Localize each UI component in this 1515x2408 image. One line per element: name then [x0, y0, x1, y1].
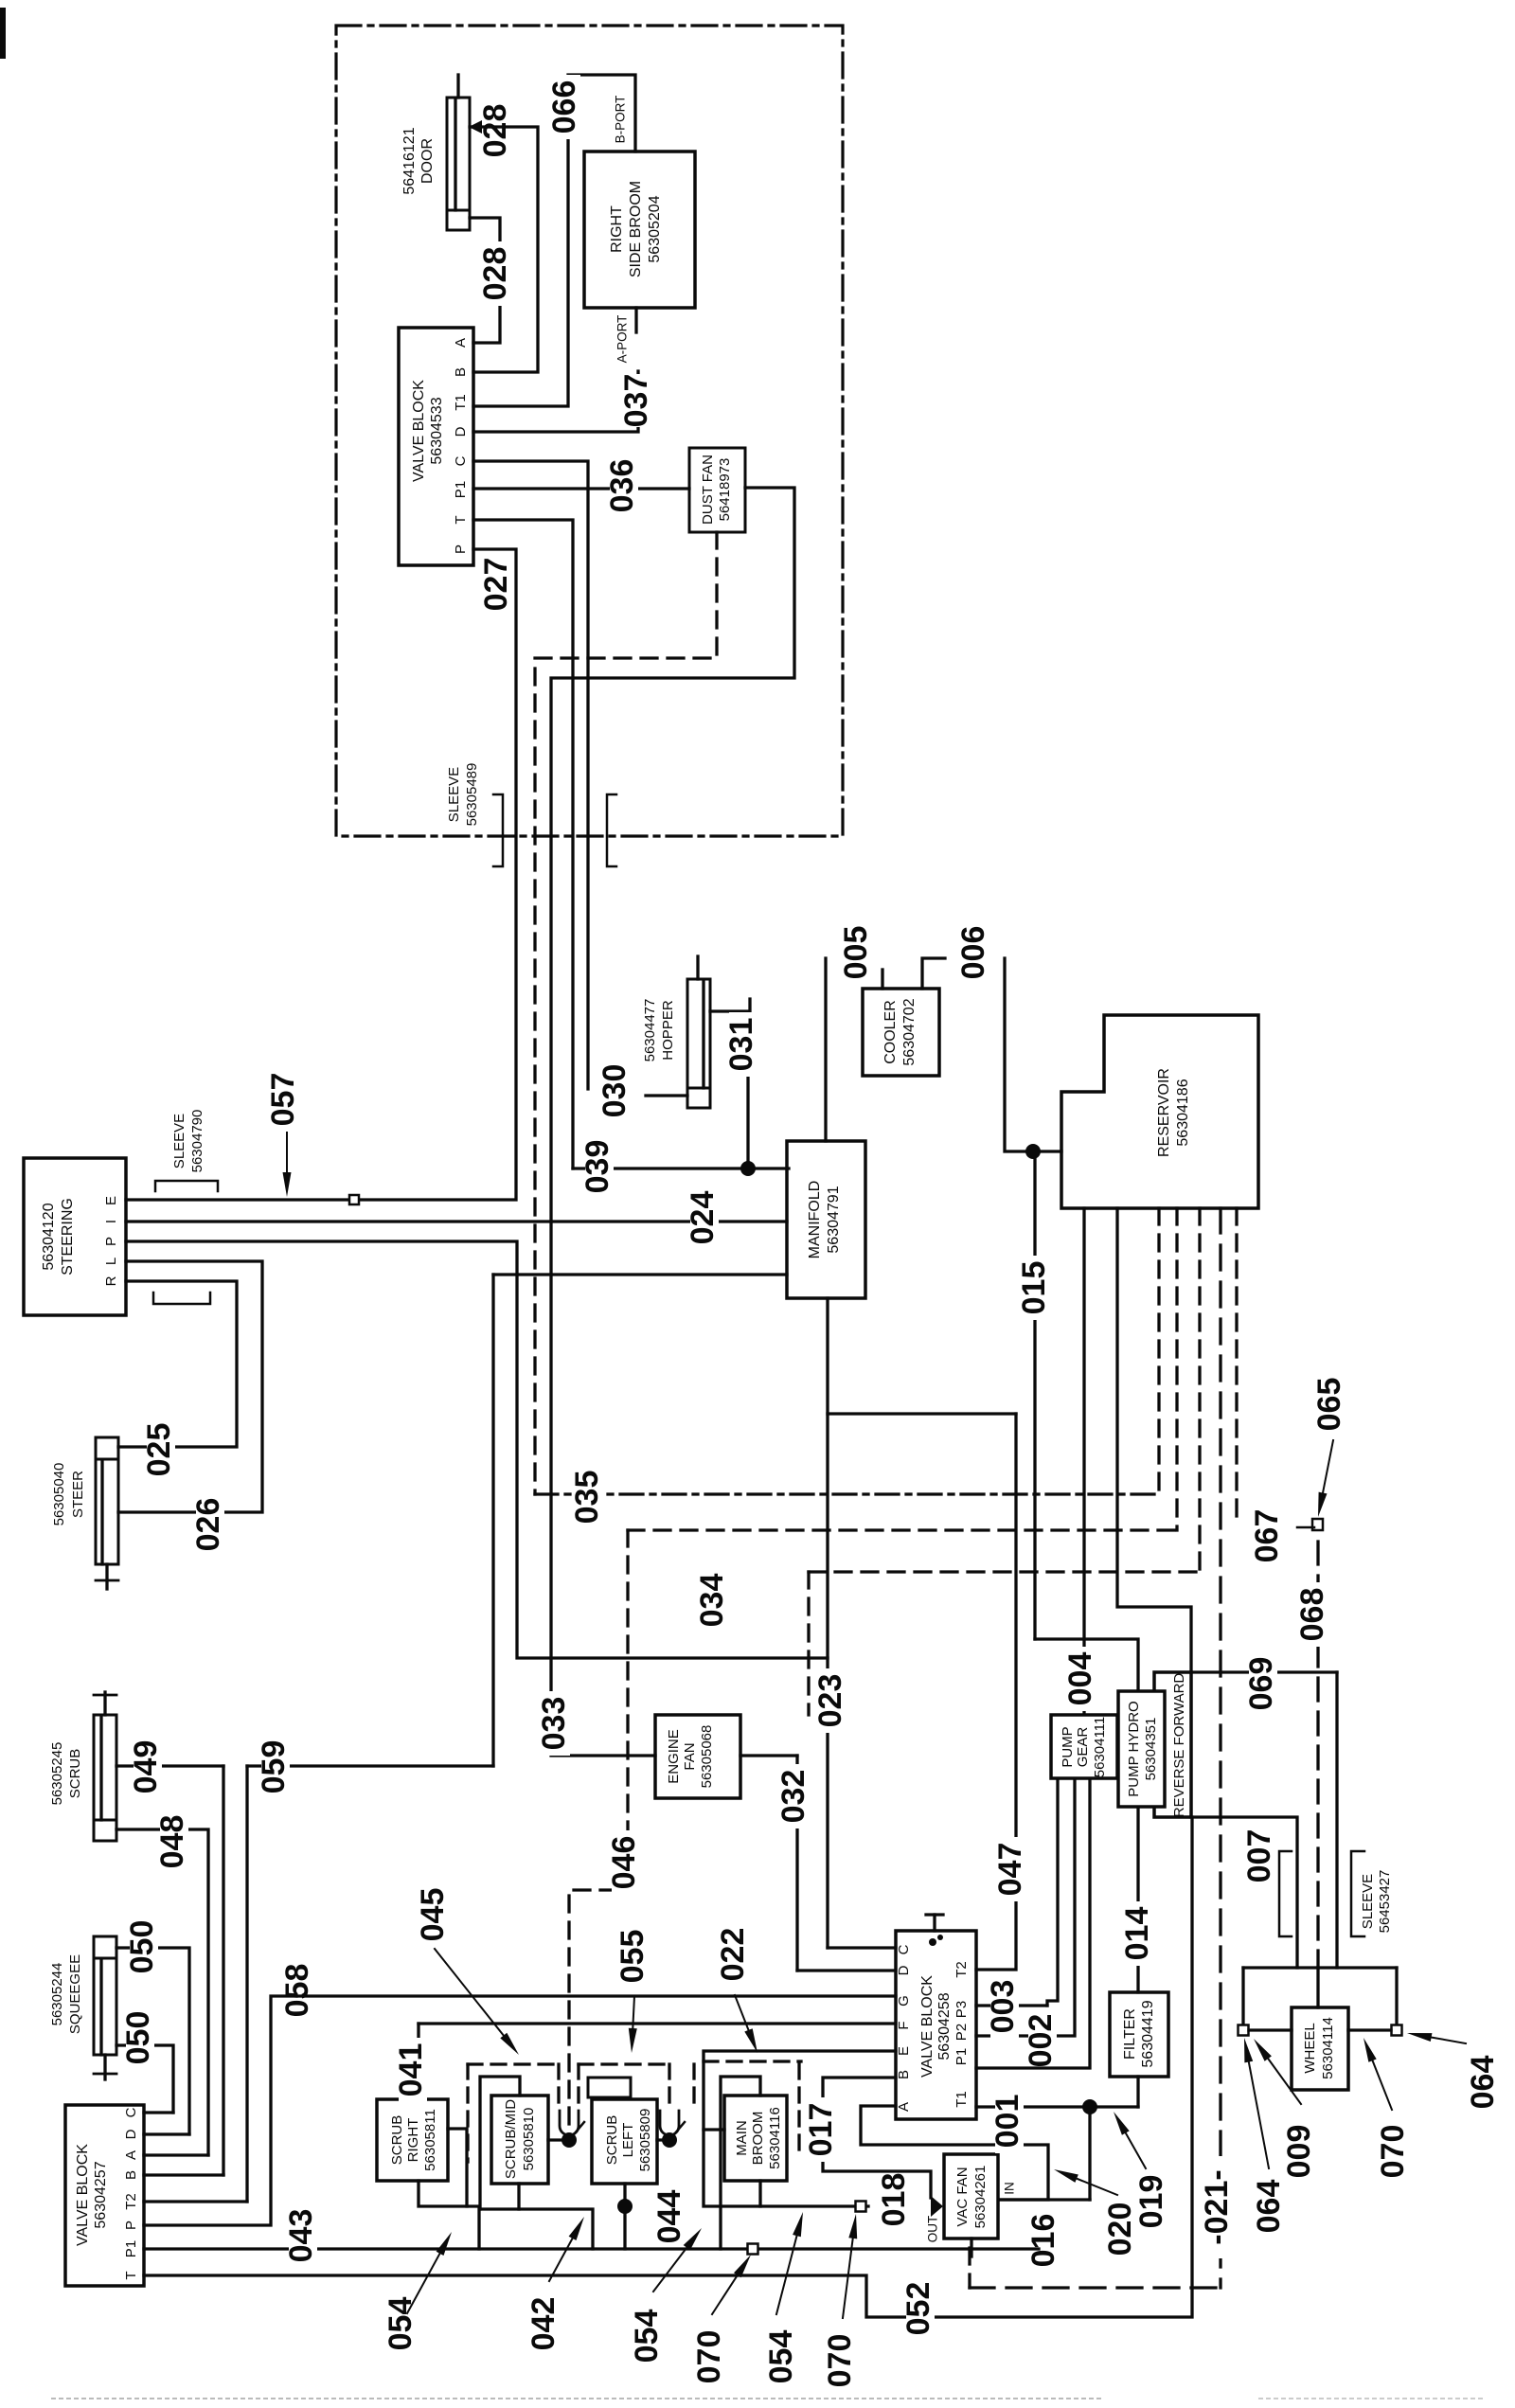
svg-text:56305810: 56305810 — [521, 2108, 537, 2171]
dashed box C top edge — [704, 2060, 801, 2062]
junction node 044 — [617, 2199, 633, 2214]
svg-text:56304186: 56304186 — [1175, 1079, 1191, 1146]
svg-text:055: 055 — [615, 1930, 651, 1984]
steering unit 56304120 — [24, 1158, 126, 1315]
svg-text:DOOR: DOOR — [419, 138, 436, 184]
connector square 064 right — [1392, 2025, 1402, 2036]
label 021 — [1204, 2156, 1233, 2258]
wire 050 squeegee top to valve3 D — [116, 1948, 189, 2134]
svg-text:OUT: OUT — [926, 2216, 940, 2243]
valve block U2 56304258 — [896, 1931, 976, 2119]
label 050 lower — [126, 2006, 154, 2070]
wire 018 valve2 A loop to vac fan IN — [861, 2106, 1048, 2200]
wire 059 vertical — [491, 1275, 494, 1766]
wire valve2 E to broom bottom rail — [704, 2051, 896, 2206]
arrow 054 c — [776, 2236, 796, 2314]
wire 042 scrub mid bottom — [480, 2209, 593, 2249]
svg-text:006: 006 — [955, 926, 991, 980]
connector 065 body — [1312, 1519, 1323, 1530]
wire 059 vertical to valve3 T2 — [245, 1766, 248, 2202]
svg-text:042: 042 — [526, 2297, 561, 2351]
svg-text:RIGHT: RIGHT — [405, 2118, 421, 2163]
arrow 070 b — [843, 2239, 853, 2318]
label 032 — [781, 1764, 810, 1828]
svg-text:56305489: 56305489 — [464, 763, 480, 827]
svg-text:G: G — [896, 1995, 912, 2007]
wire 026 steering L to steer cylinder — [118, 1261, 262, 1512]
svg-text:T2: T2 — [954, 1961, 970, 1978]
valve2 plugged port cap — [926, 1913, 943, 1916]
svg-text:C: C — [123, 2107, 139, 2117]
svg-text:56305068: 56305068 — [699, 1725, 715, 1789]
arrowhead at door cylinder port — [469, 120, 482, 134]
dashed reservoir drain 4 (021) — [1219, 1208, 1221, 2288]
svg-text:031: 031 — [723, 1018, 759, 1072]
sleeve bracket right 56453427 — [1351, 1851, 1364, 1936]
svg-text:56305809: 56305809 — [637, 2109, 653, 2172]
svg-text:050: 050 — [120, 2011, 156, 2065]
label 050 upper — [130, 1915, 158, 1979]
svg-text:041: 041 — [393, 2043, 429, 2097]
svg-text:P: P — [103, 1237, 119, 1246]
svg-text:SQUEEGEE: SQUEEGEE — [67, 1954, 83, 2034]
svg-text:046: 046 — [606, 1836, 642, 1890]
dashed wire 068 down to wheel bar — [1316, 1542, 1319, 1968]
svg-text:037: 037 — [618, 374, 654, 428]
cylinder DOOR 56416121 body — [447, 98, 470, 210]
wire 044 scrub left bottom — [623, 2184, 626, 2249]
steer cylinder body — [96, 1459, 118, 1564]
svg-text:D: D — [123, 2129, 139, 2139]
label 025 — [147, 1418, 175, 1482]
svg-text:VAC FAN: VAC FAN — [954, 2167, 971, 2226]
arrow 054 a — [407, 2254, 440, 2313]
dashed box C right edge — [797, 2064, 800, 2151]
svg-text:56305040: 56305040 — [51, 1463, 67, 1526]
svg-text:026: 026 — [190, 1498, 226, 1552]
wire 037 valve1 D to broom A-PORT — [473, 371, 638, 432]
wire 047 vertical to valve2 T2 — [976, 1414, 1016, 1970]
dashed wire 021 stub up — [968, 2248, 971, 2288]
svg-text:PUMP: PUMP — [1060, 1726, 1076, 1767]
svg-text:D: D — [896, 1965, 912, 1975]
svg-text:028: 028 — [477, 104, 513, 158]
svg-text:SLEEVE: SLEEVE — [446, 767, 462, 822]
svg-text:070: 070 — [691, 2330, 727, 2384]
label 066 — [552, 75, 580, 139]
arrow 064 right — [1432, 2038, 1466, 2043]
svg-text:56304533: 56304533 — [429, 397, 445, 464]
svg-text:005: 005 — [838, 926, 874, 980]
svg-text:047: 047 — [992, 1843, 1028, 1897]
svg-text:027: 027 — [478, 558, 514, 612]
wire valve3 T2 stub — [144, 2200, 247, 2203]
svg-text:SCRUB: SCRUB — [604, 2115, 620, 2166]
wire 050 squeegee bottom to valve3 C — [116, 2045, 173, 2113]
svg-text:R: R — [103, 1275, 119, 1286]
wire 054 scrub right bottom — [419, 2181, 479, 2249]
svg-text:56305244: 56305244 — [49, 1963, 65, 2026]
svg-text:GEAR: GEAR — [1075, 1727, 1091, 1768]
svg-text:LEFT: LEFT — [620, 2123, 636, 2158]
dust fan motor 56418973 — [689, 448, 745, 532]
wire 019 valve2 T1 to filter — [976, 2105, 1138, 2108]
wire 033 dust fan right loop down to engine fan — [551, 488, 794, 1756]
receptacle cup at scrub left — [660, 2111, 679, 2135]
svg-text:067: 067 — [1249, 1509, 1285, 1563]
wire 005 cooler stub — [881, 970, 883, 989]
svg-text:MAIN: MAIN — [734, 2120, 750, 2156]
wire 049 scrub top port — [116, 1764, 223, 1767]
wire valve3 B stub — [144, 2173, 223, 2176]
wire 043 valve3 P1 long line — [144, 2247, 1039, 2250]
arrow 070 a — [712, 2275, 738, 2314]
svg-text:P: P — [123, 2221, 139, 2230]
svg-text:ENGINE: ENGINE — [666, 1729, 682, 1784]
scrub right solenoid 56305811 — [377, 2099, 448, 2181]
connector square 070 on broom rail — [856, 2202, 866, 2212]
wire 006 cooler stub — [922, 958, 945, 989]
steer cylinder rod — [105, 1564, 108, 1589]
svg-text:-021-: -021- — [1199, 2169, 1235, 2244]
svg-text:SIDE BROOM: SIDE BROOM — [628, 181, 644, 277]
svg-text:024: 024 — [685, 1191, 721, 1245]
label 033 — [542, 1691, 570, 1756]
wire 039 valve1 T down — [473, 520, 573, 1168]
svg-text:56305245: 56305245 — [49, 1742, 65, 1806]
door cylinder cap — [447, 210, 470, 230]
svg-text:COOLER: COOLER — [882, 1000, 899, 1064]
svg-text:MANIFOLD: MANIFOLD — [807, 1181, 823, 1259]
valve block U3 56304257 — [65, 2105, 144, 2286]
wire 032 engine fan right — [740, 1754, 797, 1757]
arrow 009 — [1268, 2059, 1301, 2104]
wire 004 reservoir to pump gear top — [1082, 1208, 1085, 1715]
svg-text:036: 036 — [604, 459, 640, 513]
svg-text:A: A — [123, 2150, 139, 2160]
connector square 070 on 043 line — [748, 2244, 758, 2255]
valve2 plugged port stub — [933, 1915, 936, 1931]
wire 003 valve2 P3 stub — [976, 2004, 1047, 2007]
svg-text:IN: IN — [1003, 2182, 1017, 2195]
svg-text:T1: T1 — [954, 2091, 970, 2108]
svg-text:T2: T2 — [123, 2193, 139, 2210]
sleeve bracket right 56305489 — [607, 794, 616, 866]
svg-text:E: E — [103, 1196, 119, 1205]
wire 058 valve3 P to valve2 G — [144, 1996, 896, 2225]
wire 016 vac fan OUT stub — [970, 2239, 972, 2256]
svg-text:56453427: 56453427 — [1377, 1870, 1393, 1934]
valve2 symbol dot a — [929, 1938, 936, 1946]
node tick scrub left — [669, 2122, 685, 2140]
svg-text:STEER: STEER — [70, 1471, 86, 1518]
label 068 — [1300, 1582, 1328, 1647]
svg-text:VALVE BLOCK: VALVE BLOCK — [75, 2144, 91, 2246]
wire 066 valve1 T1 to broom B-PORT — [473, 75, 635, 406]
svg-text:064: 064 — [1251, 2180, 1287, 2234]
svg-text:56304791: 56304791 — [826, 1186, 842, 1253]
svg-text:F: F — [896, 2021, 912, 2029]
wire 023 into valve2 C — [828, 1946, 896, 1949]
svg-text:016: 016 — [1025, 2214, 1061, 2268]
label 048 — [160, 1810, 188, 1874]
svg-text:043: 043 — [283, 2209, 319, 2263]
svg-text:058: 058 — [279, 1964, 315, 2018]
arrow 020 — [1077, 2179, 1117, 2195]
wire 031 hopper cylinder port stub — [710, 999, 750, 1011]
label 037 — [624, 374, 652, 427]
steer rod crossbar — [96, 1579, 118, 1582]
squeegee rod crossbar — [94, 2073, 116, 2076]
arrow 045 — [435, 1949, 504, 2036]
cooler 56304702 — [863, 989, 939, 1076]
wire 032 vertical — [795, 1756, 798, 1971]
svg-text:FILTER: FILTER — [1122, 2008, 1138, 2060]
pump gear 56304111 — [1051, 1715, 1117, 1778]
wire wheel bar right drop — [1395, 1968, 1398, 2025]
dashed box A left edge — [466, 2064, 469, 2162]
node tick scrub mid — [569, 2122, 584, 2140]
wire 001 valve2 P1 to pump gear — [976, 1779, 1090, 2068]
svg-text:C: C — [453, 455, 469, 466]
wire 041 scrub right top stub — [417, 2024, 419, 2099]
label 001 — [995, 2089, 1024, 2153]
dashed box B left edge — [577, 2064, 579, 2112]
label 015 — [1022, 1256, 1050, 1320]
wire 039 horizontal to manifold — [573, 1167, 789, 1169]
svg-text:050: 050 — [124, 1920, 160, 1974]
label 052 — [906, 2276, 935, 2341]
svg-text:FAN: FAN — [682, 1742, 698, 1770]
wire 006 down to reservoir — [1005, 958, 1061, 1151]
cylinder STEER 56305040 cap — [96, 1437, 118, 1459]
scrub rod crossbar — [94, 1694, 116, 1697]
wire 005 manifold top stub — [824, 958, 827, 1141]
dashed box B top edge — [579, 2062, 670, 2065]
svg-text:034: 034 — [694, 1574, 730, 1628]
svg-text:C: C — [896, 1944, 912, 1954]
svg-text:P3: P3 — [954, 2001, 970, 2018]
wire 069 horizontal — [1191, 1670, 1337, 1673]
svg-text:052: 052 — [900, 2282, 936, 2336]
wire 032 into valve2 D — [797, 1969, 896, 1971]
svg-text:B-PORT: B-PORT — [614, 96, 628, 144]
svg-text:L: L — [103, 1258, 119, 1265]
dashed drain wire 035 from dust fan — [535, 532, 717, 1494]
junction node 046 at scrub mid — [561, 2132, 577, 2148]
label 059 — [261, 1735, 290, 1799]
svg-text:035: 035 — [569, 1471, 605, 1525]
label 014 — [1125, 1901, 1153, 1966]
svg-text:019: 019 — [1133, 2175, 1169, 2229]
wire 052 valve3 T to reverse port — [144, 1817, 1192, 2317]
svg-text:A-PORT: A-PORT — [615, 315, 630, 364]
svg-text:56304261: 56304261 — [972, 2166, 989, 2229]
hopper cylinder rod — [696, 956, 699, 979]
wire 047 horizontal from manifold leg — [828, 1412, 1016, 1415]
dashed wire 046 to scrub mid — [569, 1530, 628, 2129]
filter 56304419 — [1110, 1992, 1168, 2077]
dashed reservoir drain 2 — [1175, 1208, 1178, 1530]
wire main broom top to bottom rail — [721, 2077, 760, 2249]
svg-text:001: 001 — [989, 2095, 1025, 2149]
scrub cylinder piston line — [99, 1718, 102, 1820]
svg-text:56304351: 56304351 — [1143, 1718, 1159, 1781]
svg-text:070: 070 — [822, 2334, 858, 2388]
label 024 — [690, 1186, 719, 1250]
svg-text:017: 017 — [803, 2103, 839, 2157]
svg-text:039: 039 — [579, 1140, 615, 1194]
valve2 symbol dot b — [937, 1935, 943, 1940]
arrow 019 — [1126, 2133, 1146, 2168]
svg-text:048: 048 — [154, 1815, 190, 1869]
label 002 — [1028, 2017, 1057, 2064]
wire 070 wheel to right connector — [1348, 2028, 1391, 2031]
wire 030 valve1 C down to hopper cylinder — [473, 461, 588, 1089]
svg-text:DUST FAN: DUST FAN — [700, 455, 716, 525]
svg-text:018: 018 — [876, 2173, 912, 2227]
svg-text:56418973: 56418973 — [717, 458, 733, 522]
sleeve bracket left 56305489 — [493, 794, 503, 866]
cylinder HOPPER 56304477 body — [687, 979, 710, 1088]
dashed wire 034 to engine fan top — [807, 1572, 810, 1715]
junction node 031/039 — [740, 1161, 756, 1176]
wire scrub right side port — [448, 2129, 467, 2206]
valve block U1 56304533 — [399, 328, 473, 565]
svg-text:A: A — [453, 338, 469, 348]
svg-text:56304790: 56304790 — [189, 1110, 205, 1173]
door cylinder piston line — [454, 100, 456, 210]
wire 069 vertical to wheel bar — [1335, 1672, 1338, 1968]
dashed box A right edge — [557, 2064, 560, 2110]
svg-text:T: T — [123, 2271, 139, 2279]
reservoir 56304186 — [1061, 1015, 1258, 1208]
label 043 — [289, 2203, 317, 2268]
label 023 — [818, 1668, 847, 1733]
svg-text:T: T — [453, 515, 469, 524]
svg-text:56304258: 56304258 — [936, 1992, 953, 2060]
wire wheel top bar — [1243, 1966, 1397, 1969]
arrow 057 — [286, 1133, 288, 1172]
connector 065 tick — [1297, 1526, 1314, 1529]
dashed reservoir drain 1 — [1157, 1208, 1160, 1494]
connector square 064 left — [1239, 2025, 1249, 2036]
sleeve bracket 56304790 — [155, 1181, 218, 1191]
svg-text:P1: P1 — [453, 481, 469, 498]
receptacle cup at scrub mid — [560, 2111, 579, 2135]
svg-text:014: 014 — [1119, 1907, 1155, 1961]
hopper cylinder piston line — [702, 982, 704, 1088]
label 017 — [809, 2097, 837, 2162]
svg-text:065: 065 — [1311, 1378, 1347, 1432]
svg-text:025: 025 — [141, 1423, 177, 1477]
right side broom motor 56305204 — [584, 152, 695, 308]
wire 048 scrub bottom to valve3 A — [116, 1829, 208, 2155]
label 034 — [700, 1568, 728, 1632]
svg-text:SCRUB: SCRUB — [389, 2115, 405, 2166]
svg-text:023: 023 — [812, 1674, 848, 1728]
wire filter bottom stub — [1136, 2077, 1139, 2107]
wire reservoir to reverse-forward top — [1117, 1208, 1191, 1672]
svg-text:033: 033 — [536, 1697, 572, 1751]
wire 017 valve2 B to vac fan OUT — [823, 2078, 931, 2198]
svg-text:059: 059 — [256, 1740, 292, 1794]
label 003 — [990, 1974, 1019, 2039]
label 027 — [484, 552, 512, 616]
svg-text:028: 028 — [477, 247, 513, 301]
wire scrub mid top loop — [480, 2077, 520, 2209]
wire door upper port to valve1 B — [470, 127, 538, 372]
wire 023 manifold bottom down to valve2 C — [826, 1298, 829, 1948]
svg-text:044: 044 — [651, 2190, 687, 2244]
scan artifact marks — [0, 8, 6, 59]
dashed box B right edge — [668, 2064, 670, 2108]
svg-text:054: 054 — [629, 2310, 665, 2363]
label 041 — [399, 2038, 427, 2102]
label 069 — [1249, 1651, 1277, 1716]
scrub mid solenoid 56305810 — [491, 2096, 548, 2184]
svg-text:B: B — [453, 367, 469, 377]
svg-text:022: 022 — [715, 1928, 751, 1982]
dashed reservoir drain 3 — [1198, 1208, 1201, 1572]
dashed box C left edge — [692, 2064, 695, 2104]
dashed box A top edge — [468, 2062, 559, 2065]
junction node 006/015 — [1025, 1144, 1041, 1159]
svg-text:I: I — [103, 1220, 119, 1223]
connector on 057 wire — [349, 1195, 359, 1204]
svg-text:P1: P1 — [123, 2240, 139, 2257]
wire 024 steering I to manifold — [126, 1220, 787, 1222]
svg-text:56305811: 56305811 — [422, 2109, 438, 2171]
label 046 — [612, 1830, 640, 1895]
label 039 — [585, 1134, 614, 1199]
wire wheel bar left drop — [1241, 1968, 1244, 2025]
svg-text:P2: P2 — [954, 2024, 970, 2041]
cylinder SCRUB 56305245 body — [94, 1715, 116, 1820]
wire 009 left connector to wheel — [1249, 2028, 1292, 2031]
svg-text:SLEEVE: SLEEVE — [171, 1114, 187, 1168]
svg-text:56304114: 56304114 — [1320, 2017, 1336, 2079]
label 047 — [998, 1837, 1026, 1901]
svg-text:P: P — [453, 544, 469, 554]
label 028 lower — [483, 241, 511, 306]
wire 020 down to vac fan IN — [1088, 2107, 1091, 2200]
wire 014 pump hydro to filter — [1136, 1807, 1139, 1992]
svg-text:HOPPER: HOPPER — [660, 1000, 676, 1061]
wire scrub left top stub box — [588, 2078, 631, 2097]
label 049 — [134, 1735, 162, 1799]
scrub cylinder cap — [94, 1820, 116, 1841]
svg-text:T1: T1 — [453, 394, 469, 411]
sleeve bracket left on 007 — [1279, 1851, 1292, 1936]
hopper boundary dash-dot box — [336, 26, 843, 836]
svg-text:WHEEL: WHEEL — [1302, 2023, 1318, 2073]
svg-text:56305204: 56305204 — [647, 195, 663, 262]
svg-text:PUMP HYDRO: PUMP HYDRO — [1126, 1701, 1142, 1796]
junction node 020 — [1082, 2099, 1097, 2114]
main broom motor 56304116 — [724, 2096, 787, 2181]
wire scrub left side port — [657, 2138, 669, 2141]
scrub left solenoid 56305809 — [592, 2099, 657, 2184]
svg-text:SCRUB: SCRUB — [67, 1749, 83, 1799]
wire 027 valve1 P down to steering E — [126, 549, 516, 1200]
arrow 064 left — [1249, 2062, 1269, 2168]
svg-text:032: 032 — [775, 1770, 811, 1824]
wire wheel top stub — [1316, 1968, 1319, 2007]
svg-text:070: 070 — [1375, 2125, 1411, 2179]
arrowhead at vac fan OUT port — [931, 2196, 943, 2217]
svg-text:56304116: 56304116 — [767, 2107, 783, 2169]
